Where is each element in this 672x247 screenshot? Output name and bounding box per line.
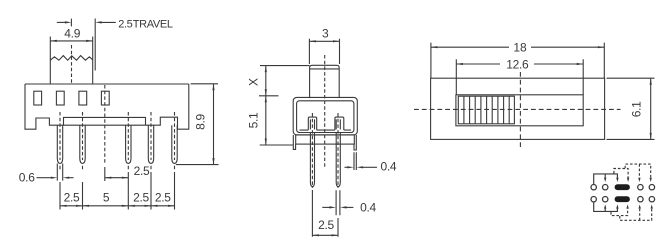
dim 6.1 line: [650, 78, 652, 139]
dim centerline to pin3: [105, 177, 129, 179]
svg-text:12.6: 12.6: [506, 57, 529, 71]
svg-text:TRAVEL: TRAVEL: [133, 18, 173, 30]
middle centerline dashed: [324, 55, 326, 168]
terminal circle row2 col2: [603, 197, 608, 202]
bottom extension lines: [60, 172, 175, 210]
dim 0.4 side arrows: [345, 166, 349, 168]
svg-text:4.9: 4.9: [64, 27, 80, 41]
pin 4: [148, 125, 153, 163]
hole 3: [79, 91, 87, 105]
svg-text:5.1: 5.1: [247, 112, 261, 128]
travel right arrow: [99, 21, 116, 23]
terminal circle row2 col1: [591, 197, 596, 202]
pin centerlines dashed: [60, 85, 175, 163]
switch centerline dashed: [104, 85, 106, 163]
hole 4: [101, 91, 109, 105]
terminal circle row2 col4: [638, 197, 643, 202]
knob sides: [50, 37, 92, 85]
terminal circle row1 col5: [649, 185, 654, 190]
svg-text:0.6: 0.6: [19, 171, 35, 185]
dim 2.5 mid line: [312, 234, 338, 236]
hole 1: [34, 91, 42, 105]
top view outer rect: [431, 78, 605, 139]
knob serrated top: [50, 56, 92, 61]
slider contact row1: [615, 184, 630, 190]
18 extension lines: [431, 43, 604, 79]
pin 1: [57, 125, 62, 163]
svg-text:0.4: 0.4: [360, 200, 376, 214]
svg-text:2.5: 2.5: [64, 191, 80, 205]
X extension top: [260, 65, 310, 67]
svg-text:6.1: 6.1: [629, 101, 643, 117]
terminal circle row1 col2: [603, 185, 608, 190]
slider contact row2: [615, 196, 630, 202]
travel left arrow: [57, 21, 68, 23]
front body outline: [25, 84, 189, 129]
base strip: [296, 135, 355, 144]
pin 5: [172, 125, 177, 163]
pin 3: [126, 125, 131, 163]
travel position line: [94, 19, 96, 71]
pin2 edge extension lines: [336, 190, 340, 215]
top solid link: [594, 174, 618, 184]
travel tick: [70, 19, 72, 27]
vertical centerline dashed: [519, 72, 521, 149]
bottom dashed link pos2: [611, 208, 628, 216]
right tab: [354, 135, 356, 150]
mid bottom extension lines: [312, 190, 338, 237]
channel floor: [300, 129, 352, 131]
svg-text:X: X: [247, 78, 261, 86]
knob top rect: [458, 96, 514, 124]
bottom chain dimension line: [60, 205, 175, 207]
svg-text:2.5: 2.5: [155, 191, 171, 205]
dim 0.6 arrows: [37, 177, 52, 179]
hole 2: [56, 91, 64, 105]
body outer rounded rect: [293, 97, 357, 134]
contact tower 1: [308, 117, 316, 130]
svg-text:2.5: 2.5: [118, 18, 132, 30]
top dashed link pos3: [625, 164, 651, 179]
stem cap line: [310, 68, 340, 70]
dim 12.6 line: [456, 63, 583, 65]
pin 2: [80, 125, 85, 163]
pin tip center dashes: [60, 166, 175, 170]
stem: [310, 65, 340, 97]
center extension solid: [104, 167, 106, 181]
terminal circle row1 col4: [638, 185, 643, 190]
dim 0.4 bottom arrows: [322, 206, 330, 208]
knob centerline dashed: [71, 45, 73, 84]
slot rect: [456, 95, 583, 126]
knob knurl lines: [464, 96, 509, 124]
bottom dashed link pos3: [620, 208, 652, 221]
middle pin 2: [336, 144, 340, 187]
tower pin slots: [310, 119, 340, 129]
svg-text:18: 18: [513, 41, 527, 55]
body inner rounded rect: [297, 101, 354, 133]
middle pin centerlines dashed: [311, 113, 313, 188]
6.1 extension lines: [607, 78, 655, 139]
terminal circle row2 col5: [649, 197, 654, 202]
svg-text:0.4: 0.4: [381, 159, 397, 173]
right tab extension lines: [354, 152, 356, 170]
X extension bottom: [259, 95, 279, 97]
svg-text:2.5: 2.5: [318, 218, 334, 232]
middle pin 1: [310, 144, 314, 187]
pin1 edge extension lines: [57, 164, 62, 181]
left tab: [293, 135, 295, 149]
bottom solid link: [594, 202, 618, 211]
horizontal centerline dashed: [414, 108, 621, 110]
svg-text:2.5: 2.5: [134, 164, 150, 178]
dim 8.9 line: [213, 84, 215, 165]
dim 3 line: [309, 40, 339, 42]
svg-text:3: 3: [322, 26, 329, 40]
pin edges crossing base strip: [310, 132, 340, 144]
base seam rectangle: [64, 117, 146, 125]
contact tower 2: [335, 117, 344, 130]
dim 18 line: [431, 46, 604, 48]
12.6 extension lines: [456, 59, 583, 95]
svg-text:2.5: 2.5: [133, 191, 149, 205]
top dashed link pos2: [614, 169, 628, 179]
svg-text:8.9: 8.9: [194, 113, 208, 129]
5.1 extension bottom: [260, 144, 294, 146]
dim 8.9 extension lines: [176, 84, 219, 165]
svg-text:5: 5: [103, 191, 110, 205]
dim 4.9 arrows: [50, 40, 92, 42]
dim 5.1 line: [265, 96, 267, 145]
dim X line: [265, 66, 267, 96]
dim 3 extension lines: [309, 39, 339, 64]
terminal circle row1 col1: [591, 185, 596, 190]
